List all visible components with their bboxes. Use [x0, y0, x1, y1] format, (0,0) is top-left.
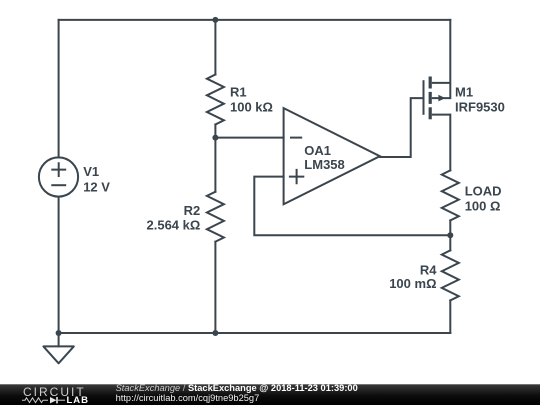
op-amp U1 triangle: [284, 108, 380, 204]
svg-text:LAB: LAB: [67, 395, 90, 405]
node A junction LOAD / R4 / feedback: [447, 232, 453, 238]
svg-text:http://circuitlab.com/cqj9tne9: http://circuitlab.com/cqj9tne9b25g7: [116, 393, 260, 403]
node B junction R1 / R2 / op-amp input: [212, 135, 218, 141]
wire top rail to R1: [214, 20, 216, 75]
V1 plus sign: [52, 163, 65, 176]
svg-text:12 V: 12 V: [83, 180, 110, 195]
svg-text:R2: R2: [184, 203, 201, 218]
voltage source V1 circle: [39, 157, 78, 196]
ground stub wire: [58, 333, 60, 346]
wire R1 to node B: [214, 125, 216, 138]
wire LOAD to node A: [449, 220, 451, 235]
node junction ground / bottom rail: [56, 330, 62, 336]
transistor M1 drain connection: [432, 114, 451, 116]
svg-text:R1: R1: [230, 85, 247, 100]
wire op-amp output to M1 gate: [380, 98, 423, 157]
resistor R1: [207, 75, 224, 125]
V1 minus sign: [52, 184, 65, 186]
svg-text:IRF9530: IRF9530: [455, 100, 505, 115]
svg-text:StackExchange / StackExchange: StackExchange / StackExchange @ 2018-11-…: [116, 383, 358, 393]
resistor R4: [442, 250, 459, 300]
op-amp noninverting input plus symbol: [289, 169, 304, 184]
transistor M1 body arrow head: [438, 95, 445, 102]
svg-text:M1: M1: [455, 84, 473, 99]
transistor M1 channel bars: [429, 77, 432, 120]
wire R2 to bottom rail: [214, 242, 216, 333]
wire R4 to bottom rail: [449, 300, 451, 333]
wire node B to R2: [214, 138, 216, 192]
ground symbol triangle: [43, 346, 73, 363]
wire node B to op-amp inverting input: [215, 137, 283, 139]
wire M1 drain to LOAD: [449, 115, 451, 171]
op-amp inverting input minus symbol: [290, 137, 302, 139]
svg-text:100 mΩ: 100 mΩ: [389, 276, 436, 291]
svg-text:100 Ω: 100 Ω: [465, 199, 501, 214]
node junction R2 / bottom rail: [212, 330, 218, 336]
wire op-amp noninverting input feedback loop: [254, 177, 450, 236]
wire node A to R4: [449, 235, 451, 250]
wire left rail lower (V1 to bottom rail): [58, 197, 60, 333]
svg-text:V1: V1: [83, 164, 99, 179]
svg-text:LOAD: LOAD: [465, 184, 502, 199]
svg-text:2.564 kΩ: 2.564 kΩ: [147, 217, 201, 232]
transistor M1 body connection with arrow: [432, 97, 451, 99]
wire right rail upper (top rail to M1 source/body): [449, 20, 451, 98]
wire left rail upper (V1 to top rail): [58, 20, 60, 158]
CircuitLab logo resistor zigzag: [22, 398, 48, 403]
resistor R2: [207, 192, 224, 242]
CircuitLab logo diode: [50, 397, 57, 403]
svg-text:OA1: OA1: [304, 143, 331, 158]
svg-text:100 kΩ: 100 kΩ: [230, 100, 273, 115]
resistor LOAD: [442, 170, 459, 220]
transistor M1 source connection: [432, 82, 451, 84]
wire bottom rail: [59, 332, 451, 334]
svg-text:LM358: LM358: [304, 157, 344, 172]
wire top rail: [59, 19, 451, 21]
transistor M1 gate bar: [423, 80, 425, 115]
node junction top rail / R1: [212, 17, 218, 23]
